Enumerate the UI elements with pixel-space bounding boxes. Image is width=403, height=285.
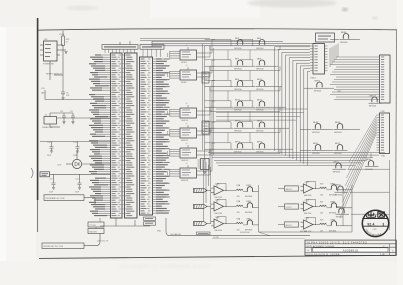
svg-text:LFOUT: LFOUT <box>286 207 293 209</box>
svg-text:CN1: CN1 <box>41 88 45 90</box>
svg-text:INF2K06: INF2K06 <box>312 132 319 134</box>
wire stage row 1 return <box>210 49 280 51</box>
svg-text:REPLACEMENT SCHEM.: REPLACEMENT SCHEM. <box>307 245 335 248</box>
wire U19 bottom down <box>49 61 51 75</box>
svg-text:5 OF: 5 OF <box>380 254 386 256</box>
+5V tick U8 <box>187 165 189 168</box>
wire stage row 3 mid vertical <box>252 80 254 86</box>
wire opamp right row 3 <box>278 224 285 226</box>
wire stage row 5 return <box>210 131 280 133</box>
wire inter-row verticals 2 <box>227 70 229 80</box>
+5V tick U5 <box>187 105 189 108</box>
wire stage row 1 mid vertical <box>252 39 254 45</box>
svg-text:INF2K06: INF2K06 <box>336 216 343 218</box>
frame bottom border <box>39 255 396 258</box>
driver U4 input wires <box>168 71 181 79</box>
wire stage row 6 mid vertical <box>252 143 254 149</box>
svg-text:GMD301: GMD301 <box>181 120 188 122</box>
bus verticals to opamps <box>203 160 205 221</box>
transistor stage BF32 <box>335 184 349 196</box>
svg-text:IN INF2K06: IN INF2K06 <box>240 232 249 234</box>
svg-text:INF2K06: INF2K06 <box>300 231 307 233</box>
svg-text:+5: +5 <box>186 163 188 165</box>
CPU internal pin names B <box>122 55 134 217</box>
transistor stage BF88 <box>340 32 354 44</box>
CPU U1 box A <box>111 53 123 218</box>
wire inter-row verticals 3 <box>227 91 229 101</box>
wire opamp row 1 <box>207 189 211 191</box>
svg-text:+5: +5 <box>186 65 188 67</box>
resistor R6A1 <box>236 189 243 190</box>
transistor stage BF27 <box>334 143 348 155</box>
svg-text:155: 155 <box>320 212 323 214</box>
+5V tick U6 <box>187 125 189 128</box>
svg-text:INF2K06: INF2K06 <box>334 132 341 134</box>
wire stage row 2 mid vertical <box>252 60 254 66</box>
transistor stage BF9 <box>234 38 248 50</box>
wire BF88 <box>330 39 340 41</box>
wire stage row 6 upper <box>205 142 232 144</box>
svg-text:C22: C22 <box>75 178 78 180</box>
svg-text:47: 47 <box>66 42 68 44</box>
driver U6 input wires <box>168 129 181 137</box>
svg-text:MHL2906: MHL2906 <box>304 195 311 197</box>
wire stage row 6 rail <box>205 148 234 150</box>
wire PJ7 riser <box>84 234 100 246</box>
ground at U19 pin <box>64 52 67 54</box>
svg-text:C22: C22 <box>49 178 52 180</box>
crystal OSC boxes under U2 <box>144 217 156 220</box>
wire CPU boxes bottom links <box>134 220 136 226</box>
wire inter-row verticals 1 <box>227 50 229 60</box>
wire kb row <box>40 141 110 143</box>
svg-text:INF2K06: INF2K06 <box>329 194 336 196</box>
op-amp A3 <box>211 216 228 232</box>
wire CN6 risers <box>330 44 338 67</box>
ground bottom left connector <box>203 172 206 174</box>
svg-text:GND: GND <box>157 231 162 233</box>
svg-text:INF2K06: INF2K06 <box>256 68 263 70</box>
wire stage row 5 mid vertical <box>252 122 254 128</box>
wire BF30 up <box>370 153 372 158</box>
transistor stage BF10 <box>256 79 270 91</box>
op-amp B3 <box>301 217 318 233</box>
driver U3 input wires <box>168 51 181 59</box>
svg-text:C47: C47 <box>47 142 50 144</box>
svg-text:KEYBOARD W.L 2706: KEYBOARD W.L 2706 <box>46 197 65 200</box>
input plug left opamp 2 <box>194 204 208 208</box>
wire stage row 3 rail <box>205 86 234 88</box>
CPU U1 box B <box>125 53 138 218</box>
label box on trunk <box>197 232 211 235</box>
wire stage row 4 mid vertical <box>252 101 254 107</box>
svg-text:XTAL.1: XTAL.1 <box>310 77 317 80</box>
driver IC U5 <box>180 108 197 118</box>
op-amp B2 <box>301 199 318 215</box>
wire to CPU y99 <box>45 99 110 101</box>
transistor stage BF30 <box>365 159 379 171</box>
transistor stage BF26 <box>334 122 348 134</box>
svg-text:DWG EDISON N. IMURA: DWG EDISON N. IMURA <box>307 253 340 256</box>
IC U2 box C <box>140 57 153 215</box>
frame left binding edge <box>37 18 39 200</box>
svg-text:+5: +5 <box>186 123 188 125</box>
wire opamp right row 1 <box>278 188 285 190</box>
svg-text:GMD304: GMD304 <box>181 180 188 182</box>
wire resistor to node <box>62 46 64 76</box>
+5V tick U4 <box>187 67 189 70</box>
bus label MA0-MA15 <box>102 45 138 50</box>
input label box right opamp 3 <box>285 222 299 227</box>
driver U8 output wires <box>197 170 207 172</box>
wire stage row 2 rail <box>205 65 234 67</box>
wire stage row 4 upper <box>205 100 232 102</box>
svg-text:INF2K06: INF2K06 <box>334 153 341 155</box>
svg-text:INF2K06: INF2K06 <box>340 42 347 44</box>
svg-text:HD302: HD302 <box>181 82 187 84</box>
transistor stage BF12 <box>256 99 270 111</box>
svg-text:C22: C22 <box>73 142 76 144</box>
svg-text:LED: LED <box>58 165 62 167</box>
svg-text:SCHEMATIC DIAGRAM ASSY: SCHEMATIC DIAGRAM ASSY <box>120 264 210 270</box>
wire VCCA feed <box>62 31 64 37</box>
ladder rail left of stages <box>204 46 206 160</box>
svg-text:+5: +5 <box>186 103 188 105</box>
transistor stage BF33 <box>336 206 350 218</box>
label box KEYIN2 <box>42 243 84 248</box>
input plug left opamp 1 <box>194 188 208 192</box>
svg-text:INF2K06: INF2K06 <box>256 48 263 50</box>
frame top border <box>38 29 397 31</box>
title number cell <box>313 248 388 252</box>
svg-text:INF2K06: INF2K06 <box>245 212 252 214</box>
transistor stage BF40 <box>312 122 326 134</box>
driver IC U4 <box>180 70 197 80</box>
wire fan CN8 <box>340 116 377 219</box>
capacitor C6 <box>61 75 65 97</box>
svg-text:POWER SW: POWER SW <box>43 64 54 66</box>
svg-text:INF2K06: INF2K06 <box>369 105 376 107</box>
svg-text:92.4.: 92.4. <box>367 222 375 226</box>
wire ceralock to CPU <box>57 117 111 119</box>
wire stage row right2 <box>300 150 312 152</box>
svg-text:INF2K06: INF2K06 <box>256 130 263 132</box>
svg-text:XTAL: XTAL <box>381 155 385 158</box>
transistor stage BF4 <box>234 79 248 91</box>
driver IC U6 <box>180 128 197 138</box>
connector bottom left pins <box>201 159 210 170</box>
stamp kanji 出 <box>367 211 385 217</box>
wire into title block <box>212 238 305 240</box>
input plug left opamp 3 <box>194 222 208 226</box>
transistor stage BF6 <box>256 38 270 50</box>
resistor R2T1 <box>320 187 327 188</box>
op-amp A2 <box>211 199 228 215</box>
capacitor C47 <box>47 142 53 153</box>
driver U5 output wires <box>197 110 207 112</box>
svg-text:3: 3 <box>382 222 384 226</box>
svg-text:INF2K06: INF2K06 <box>329 212 336 214</box>
svg-text:+5: +5 <box>186 143 188 145</box>
transistor stage BF15 <box>256 120 270 132</box>
svg-text:PJ7 W.L: PJ7 W.L <box>90 225 97 227</box>
driver U7 input wires <box>168 149 181 157</box>
svg-text:INF2K06: INF2K06 <box>234 68 241 70</box>
driver U5 input wires <box>168 109 181 117</box>
resistor R29 <box>62 36 65 46</box>
op-amp A1 <box>211 183 228 199</box>
wire stage row 5 rail <box>205 127 234 129</box>
svg-text:MFOUT: MFOUT <box>286 189 293 191</box>
capacitor C22c <box>75 178 81 189</box>
connector hatch box upper <box>202 72 209 83</box>
wire stage row 1 upper <box>205 38 232 40</box>
svg-text:GMD302: GMD302 <box>181 140 188 142</box>
svg-text:HD301: HD301 <box>181 62 187 64</box>
U19 pins left <box>40 44 44 46</box>
wire stage row 3 upper <box>205 79 232 81</box>
stamp circle 92.4.3 <box>362 210 388 236</box>
svg-text:MHL2906: MHL2906 <box>215 230 222 232</box>
svg-text:155: 155 <box>237 212 240 214</box>
transistor stage BF8 <box>256 58 270 70</box>
svg-text:INF2K06: INF2K06 <box>234 151 241 153</box>
PJ7 boxes <box>88 222 104 227</box>
bus horizontals mid <box>208 153 385 166</box>
svg-text:INF2K06: INF2K06 <box>234 48 241 50</box>
transistor stage BF19 <box>314 80 328 92</box>
rail right of right opamps <box>351 185 353 232</box>
wire inter-row verticals 5 <box>227 132 229 142</box>
wire stage row right1 <box>300 129 312 131</box>
op-amp B1 <box>301 181 318 197</box>
driver U4 output wires <box>197 72 207 74</box>
wire stage row 1 rail <box>205 45 234 47</box>
resistor R6A2 <box>236 205 243 206</box>
wire top bus short <box>140 38 210 40</box>
frame right border <box>396 30 397 256</box>
svg-text:CN#CAB KEY: CN#CAB KEY <box>170 233 182 236</box>
svg-text:A0358818: A0358818 <box>343 248 359 252</box>
bus driver to stages <box>206 40 215 176</box>
wire top bus to right <box>152 41 283 43</box>
driver U3 output wires <box>197 52 207 54</box>
transistor stage BF31 <box>333 161 347 173</box>
transistor stage BF16 <box>256 141 270 153</box>
wire stage row 2 upper <box>205 59 232 61</box>
connector CN6 right edge <box>380 55 391 103</box>
wire opamp right row 2 <box>278 206 285 208</box>
svg-text:155: 155 <box>237 196 240 198</box>
driver U8 input wires <box>168 169 181 177</box>
wire key row <box>50 173 111 175</box>
svg-text:ALPHA 80000 30-I/O, 51/2 F#445: ALPHA 80000 30-I/O, 51/2 F#44578O <box>307 241 367 244</box>
svg-text:KEYIN2 KEY W.L 2706: KEYIN2 KEY W.L 2706 <box>44 246 63 248</box>
label box KEYBOARD <box>44 195 84 201</box>
svg-text:INF2K06: INF2K06 <box>333 171 340 173</box>
wire LED <box>66 163 72 165</box>
wire fan CN6 horizontals <box>330 57 377 100</box>
svg-text:MID-REC: MID-REC <box>90 231 98 233</box>
svg-text:INF2K06: INF2K06 <box>234 89 241 91</box>
CPU internal pin names A <box>112 55 122 217</box>
svg-text:INF2K06: INF2K06 <box>256 151 263 153</box>
wire stage row 4 return <box>210 110 280 112</box>
svg-text:+5: +5 <box>186 45 188 47</box>
transistor stage BF11 <box>234 99 248 111</box>
+5V tick U3 <box>187 47 189 50</box>
input label box right opamp 2 <box>285 204 299 209</box>
capacitor C22b <box>49 178 55 189</box>
svg-text:INF2K06: INF2K06 <box>234 130 241 132</box>
CPU pin rows left <box>89 54 111 216</box>
svg-text:INF2K06: INF2K06 <box>234 109 241 111</box>
resistor R2T2 <box>320 205 327 206</box>
transistor stage BF14 <box>234 141 248 153</box>
wire bottom trunk <box>166 218 310 236</box>
svg-text:INF2K06: INF2K06 <box>314 90 321 92</box>
resistor R6A3 <box>236 222 243 223</box>
wire stage row 6 return <box>210 152 280 154</box>
wire row-link group mid <box>216 109 307 120</box>
svg-text:CN#COL.73: CN#COL.73 <box>97 241 109 243</box>
U19 pins right <box>57 44 63 46</box>
wire inter-row verticals 4 <box>227 111 229 121</box>
input label box right opamp 1 <box>285 186 299 191</box>
stamp kanji 図 <box>378 212 385 217</box>
svg-text:MHL2906: MHL2906 <box>215 213 222 215</box>
transistor stage BF7 <box>234 58 248 70</box>
driver IC U3 <box>180 50 197 60</box>
resistor R2T3 <box>320 223 327 224</box>
title block frame <box>305 240 396 255</box>
driver U6 output wires <box>197 130 207 132</box>
svg-text:155: 155 <box>320 194 323 196</box>
driver U7 output wires <box>197 150 207 152</box>
wire rail link bottom <box>259 231 353 233</box>
paper notch left edge <box>31 168 33 178</box>
IC U2 pin rows <box>141 58 171 213</box>
svg-text:INF2K06: INF2K06 <box>245 196 252 198</box>
transistor stage BF13 <box>234 120 248 132</box>
transistor stage BF107 <box>369 95 383 107</box>
capacitor C11 <box>71 113 75 121</box>
svg-text:GMD303: GMD303 <box>181 160 188 162</box>
bus label A0-A15 <box>140 45 164 50</box>
svg-text:MHL2906: MHL2906 <box>304 213 311 215</box>
IC 45 box top right <box>316 33 335 42</box>
transistor stage BF41 <box>312 143 326 155</box>
wire stage row 4 rail <box>205 106 234 108</box>
wire opamp row 3 <box>207 223 211 225</box>
wire stage row 3 return <box>210 90 280 92</box>
driver IC U8 <box>180 168 197 178</box>
rail right of left opamps <box>258 185 260 232</box>
wire comb CPU top to bus labels <box>105 49 161 57</box>
svg-text:MHL2906: MHL2906 <box>215 197 222 199</box>
svg-text:(CONT): (CONT) <box>213 237 219 239</box>
connector key plug <box>40 172 50 177</box>
capacitor C22 <box>73 142 79 153</box>
svg-text:HPOUT: HPOUT <box>286 225 293 227</box>
svg-text:CERALOCK: CERALOCK <box>42 126 53 129</box>
wire stage row 5 upper <box>205 121 232 123</box>
wire opamp row 2 <box>207 205 211 207</box>
svg-text:RESET SWITCH: RESET SWITCH <box>46 74 62 76</box>
wire right stages to frame rail <box>348 168 390 170</box>
wire fan connector XTAL.1 staircase <box>275 47 310 166</box>
wire stage row 2 return <box>210 69 280 71</box>
+5V tick U7 <box>187 145 189 148</box>
svg-text:INF2K06: INF2K06 <box>256 109 263 111</box>
driver IC U7 <box>180 148 197 158</box>
connector hatch box mid <box>202 121 209 134</box>
capacitor C55 <box>62 113 66 121</box>
svg-text:VCCA: VCCA <box>59 33 65 36</box>
connector XTAL.1 <box>313 44 325 75</box>
svg-text:INF2K06: INF2K06 <box>256 89 263 91</box>
svg-text:INF2K06: INF2K06 <box>312 153 319 155</box>
